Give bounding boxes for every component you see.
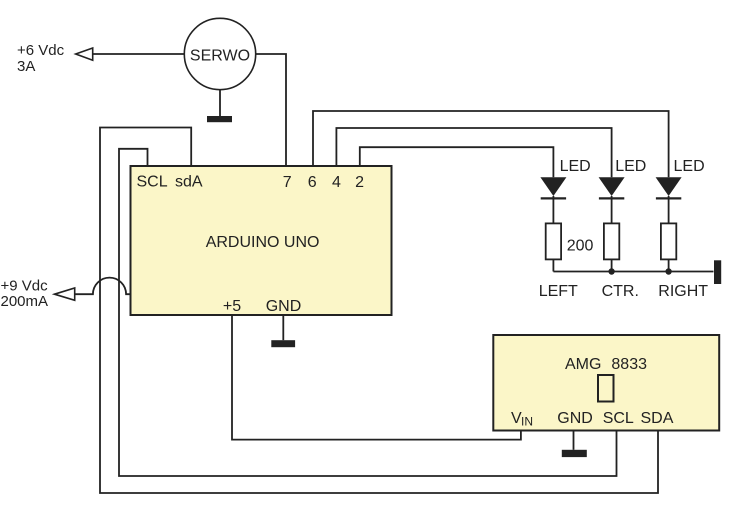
- svg-text:CTR.: CTR.: [602, 283, 639, 300]
- svg-text:7: 7: [283, 174, 292, 191]
- svg-text:3A: 3A: [17, 58, 35, 75]
- svg-text:SDA: SDA: [641, 410, 674, 427]
- svg-text:SCL: SCL: [603, 410, 634, 427]
- svg-text:ARDUINO UNO: ARDUINO UNO: [206, 234, 320, 251]
- svg-text:8833: 8833: [611, 356, 647, 373]
- svg-text:LEFT: LEFT: [539, 283, 578, 300]
- svg-text:+5: +5: [223, 298, 241, 315]
- svg-text:6: 6: [308, 174, 317, 191]
- svg-text:sdA: sdA: [175, 174, 203, 191]
- svg-text:SCL: SCL: [137, 174, 168, 191]
- svg-text:200: 200: [567, 238, 594, 255]
- svg-text:SERWO: SERWO: [190, 48, 250, 65]
- svg-text:RIGHT: RIGHT: [658, 283, 708, 300]
- svg-text:LED: LED: [674, 158, 705, 175]
- svg-text:LED: LED: [615, 158, 646, 175]
- svg-text:IN: IN: [521, 415, 533, 429]
- svg-text:+6 Vdc: +6 Vdc: [17, 42, 65, 59]
- svg-text:GND: GND: [557, 410, 593, 427]
- svg-text:2: 2: [355, 174, 364, 191]
- svg-text:4: 4: [332, 174, 341, 191]
- svg-text:GND: GND: [266, 298, 302, 315]
- svg-text:LED: LED: [560, 158, 591, 175]
- svg-text:200mA: 200mA: [1, 293, 49, 310]
- svg-text:AMG: AMG: [565, 356, 601, 373]
